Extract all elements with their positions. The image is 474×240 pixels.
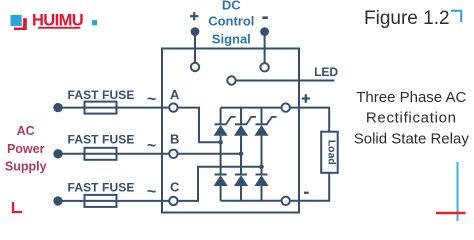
wire phase B inside relay to bridge <box>178 153 241 155</box>
wire phase C inside relay to bridge <box>178 167 262 201</box>
wire column 3 <box>261 108 263 201</box>
wire load to - output <box>290 173 329 201</box>
wire + output to load <box>290 108 329 132</box>
node junction phase B / column 2 <box>239 152 244 157</box>
DC control - input circle <box>260 63 268 71</box>
svg-text:~: ~ <box>147 138 156 155</box>
wire DC + stub <box>194 32 196 63</box>
blue registration line bottom right <box>457 162 459 221</box>
svg-text:B: B <box>170 131 179 146</box>
wire phase C fuse to terminal C <box>117 200 170 202</box>
wire - DC bus bottom rail <box>221 200 282 202</box>
svg-text:Control: Control <box>208 13 254 28</box>
DC control + terminal dot <box>191 27 200 36</box>
wire phase C from supply to fuse <box>58 200 85 202</box>
SCR Q2 <box>234 117 256 136</box>
wire DC - stub <box>264 32 266 63</box>
svg-text:C: C <box>170 180 180 195</box>
LED indicator circle <box>227 76 235 84</box>
fuse F3 FAST FUSE phase C <box>85 195 117 207</box>
node junction phase A / column 1 <box>218 140 223 145</box>
diode D2 <box>234 175 248 187</box>
load resistor box <box>321 132 338 173</box>
output + circle <box>282 103 290 111</box>
logo small blue square <box>92 20 97 25</box>
svg-text:AC: AC <box>17 124 35 138</box>
node junction phase C / column 3 <box>259 165 264 170</box>
SCR Q1 <box>214 117 236 136</box>
DC control + input circle <box>191 63 199 71</box>
svg-text:~: ~ <box>147 184 156 201</box>
label Three Phase AC Rectification Solid State Relay <box>354 89 470 147</box>
logo underline <box>38 27 80 29</box>
DC control - terminal dot <box>260 27 269 36</box>
svg-text:Rectification: Rectification <box>366 109 457 126</box>
label DC Control Signal <box>208 0 254 46</box>
wire + DC bus top rail <box>221 107 282 109</box>
fuse F1 FAST FUSE phase A <box>85 102 117 114</box>
svg-text:FAST FUSE: FAST FUSE <box>68 88 135 102</box>
AC supply node dot phase C <box>53 196 62 205</box>
svg-text:Solid State Relay: Solid State Relay <box>354 130 470 147</box>
SCR Q3 <box>254 117 276 136</box>
wire phase B fuse to terminal B <box>117 153 170 155</box>
label DC + <box>190 12 198 20</box>
svg-text:Load: Load <box>325 140 337 165</box>
svg-text:FAST FUSE: FAST FUSE <box>68 181 135 195</box>
terminal B circle <box>169 150 177 158</box>
fuse F2 FAST FUSE phase B <box>85 148 117 160</box>
logo red square <box>14 18 27 30</box>
AC supply node dot phase A <box>53 103 62 112</box>
wire phase A inside relay to bridge <box>178 108 221 143</box>
wire column 1 <box>220 108 222 201</box>
label output - <box>304 192 309 194</box>
wire phase A from supply to fuse <box>58 107 85 109</box>
svg-text:FAST FUSE: FAST FUSE <box>68 132 135 146</box>
red corner mark bottom left <box>13 202 22 212</box>
label output + <box>302 94 310 103</box>
output - circle <box>282 197 290 205</box>
svg-text:DC: DC <box>222 0 241 13</box>
blue corner mark top right <box>451 11 462 22</box>
wire phase A fuse to terminal A <box>117 107 170 109</box>
label AC Power Supply <box>5 124 47 173</box>
wire phase B from supply to fuse <box>58 153 85 155</box>
terminal C circle <box>169 197 177 205</box>
svg-text:Power: Power <box>7 142 45 156</box>
diode D3 <box>254 175 268 187</box>
svg-text:Three Phase AC: Three Phase AC <box>356 89 466 106</box>
diode D1 <box>214 175 228 187</box>
logo blue square <box>10 14 23 27</box>
label DC - <box>262 16 267 19</box>
svg-text:~: ~ <box>147 91 156 108</box>
svg-text:LED: LED <box>314 65 338 79</box>
svg-text:Supply: Supply <box>5 159 47 173</box>
AC supply node dot phase B <box>53 149 62 158</box>
red registration line bottom right <box>436 212 466 214</box>
svg-text:Figure 1.2: Figure 1.2 <box>364 8 450 29</box>
relay box outline <box>162 49 299 213</box>
svg-text:A: A <box>170 87 180 102</box>
wire LED to label <box>236 80 335 82</box>
wire column 2 <box>240 108 242 201</box>
terminal A circle <box>169 103 177 111</box>
svg-text:Signal: Signal <box>212 31 251 46</box>
